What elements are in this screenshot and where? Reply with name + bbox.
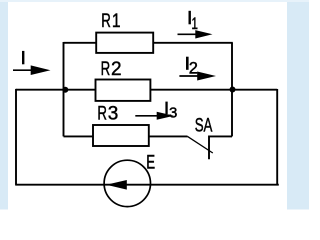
svg-text:R: R: [101, 11, 111, 32]
switch SA blade: [188, 136, 213, 153]
svg-text:3: 3: [169, 105, 177, 122]
source E circle: [104, 160, 150, 206]
current arrow I3: [135, 112, 174, 120]
current arrow I1: [178, 30, 213, 38]
wire mid right bus: [231, 43, 233, 137]
label I: [22, 51, 24, 64]
label I3: [165, 102, 167, 115]
svg-text:1: 1: [112, 9, 121, 31]
svg-text:R: R: [101, 59, 111, 80]
wire branch3 left: [64, 135, 94, 137]
current arrow I: [13, 65, 51, 75]
resistor R3: [93, 125, 149, 146]
wire branch1 left: [64, 42, 97, 44]
node junction left: [62, 87, 68, 93]
label I1: [189, 11, 191, 24]
wire branch3 right: [149, 135, 188, 137]
source E arrow: [106, 180, 127, 190]
current arrow I2: [179, 72, 216, 81]
resistor R1: [96, 33, 153, 53]
wire branch2 right: [150, 89, 277, 91]
svg-text:R: R: [97, 103, 107, 124]
wire bottom: [15, 184, 279, 186]
svg-text:3: 3: [108, 103, 119, 124]
resistor R2: [96, 80, 151, 101]
label I2: [186, 57, 189, 70]
wire left bus: [63, 42, 65, 136]
svg-text:2: 2: [189, 60, 198, 78]
svg-text:SA: SA: [195, 115, 213, 136]
svg-text:E: E: [146, 152, 155, 173]
wire left outer: [15, 89, 17, 185]
svg-text:2: 2: [111, 59, 122, 80]
node junction right: [230, 87, 236, 93]
svg-text:1: 1: [191, 15, 198, 34]
wire switch to bus: [209, 136, 232, 159]
wire right outer: [276, 89, 278, 186]
wire input horizontal: [16, 89, 96, 91]
wire branch1 right: [153, 42, 233, 44]
